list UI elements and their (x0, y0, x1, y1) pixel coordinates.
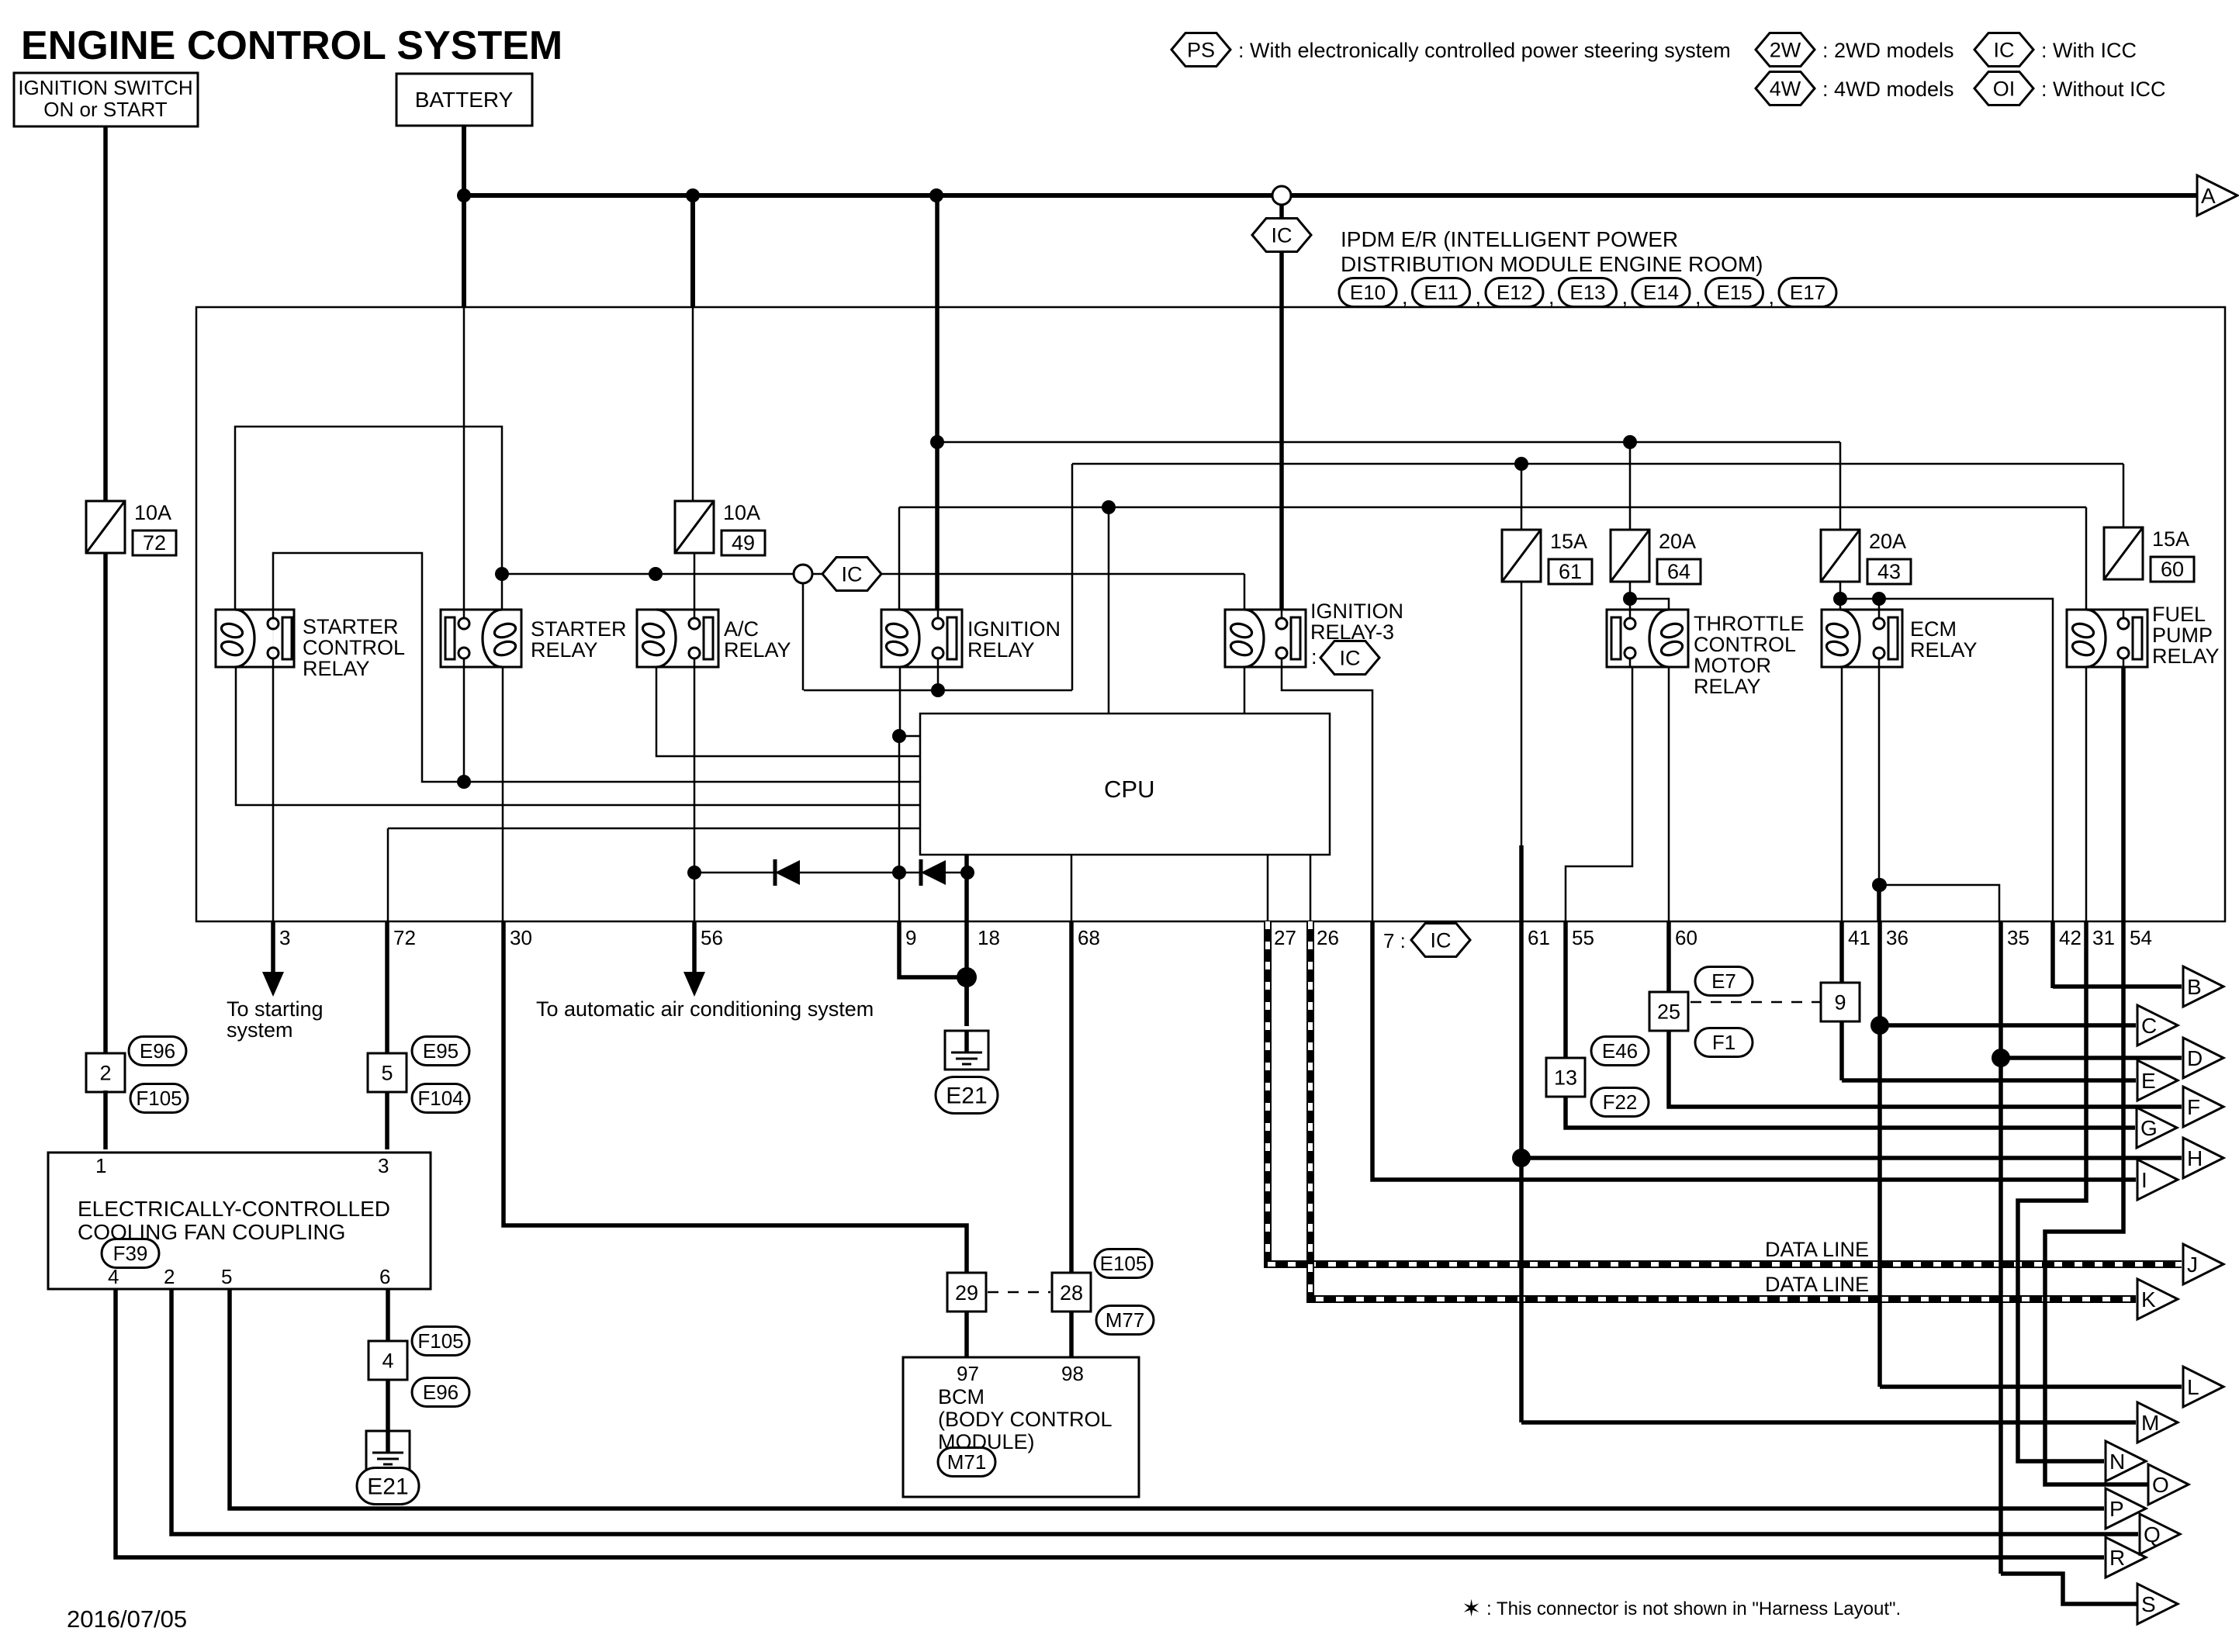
svg-text:FUEL: FUEL (2152, 603, 2206, 626)
svg-text:55: 55 (1572, 926, 1594, 949)
svg-text:97: 97 (957, 1362, 979, 1385)
svg-text:9: 9 (1834, 990, 1846, 1014)
svg-text:31: 31 (2092, 926, 2115, 949)
svg-text:CPU: CPU (1104, 776, 1154, 803)
svg-text:60: 60 (2161, 558, 2184, 581)
svg-text:To automatic air conditioning: To automatic air conditioning system (536, 997, 874, 1021)
svg-text:O: O (2152, 1473, 2169, 1497)
svg-text:J: J (2187, 1253, 2198, 1277)
svg-text:15A: 15A (1550, 530, 1587, 553)
svg-text:RELAY: RELAY (531, 638, 598, 662)
svg-text:54: 54 (2130, 926, 2152, 949)
svg-text:F1: F1 (1712, 1031, 1735, 1054)
svg-text:60: 60 (1675, 926, 1697, 949)
svg-text:2: 2 (99, 1061, 111, 1084)
svg-text:E10: E10 (1350, 281, 1386, 304)
svg-text:E96: E96 (423, 1381, 459, 1404)
svg-text:6: 6 (379, 1265, 390, 1288)
svg-text:27: 27 (1274, 926, 1296, 949)
svg-text:,: , (1476, 285, 1482, 309)
svg-text:28: 28 (1060, 1281, 1083, 1305)
svg-text:,: , (1622, 285, 1628, 309)
svg-text:P: P (2109, 1497, 2124, 1521)
svg-text:,: , (1769, 285, 1775, 309)
svg-text:13: 13 (1554, 1066, 1577, 1089)
svg-text:H: H (2187, 1146, 2203, 1170)
svg-text:G: G (2140, 1116, 2158, 1140)
svg-text:E12: E12 (1497, 281, 1532, 304)
svg-text:E13: E13 (1569, 281, 1605, 304)
svg-text:ENGINE CONTROL SYSTEM: ENGINE CONTROL SYSTEM (21, 23, 562, 68)
svg-text:PS: PS (1187, 38, 1215, 61)
svg-text:RELAY: RELAY (303, 657, 370, 680)
svg-text:DATA LINE: DATA LINE (1765, 1238, 1869, 1261)
svg-text:MOTOR: MOTOR (1694, 654, 1771, 677)
svg-text:5: 5 (381, 1061, 393, 1084)
svg-text:RELAY: RELAY (1694, 675, 1761, 698)
svg-text:E95: E95 (423, 1039, 459, 1063)
svg-text:2: 2 (164, 1265, 175, 1288)
svg-text:IPDM E/R (INTELLIGENT POWER: IPDM E/R (INTELLIGENT POWER (1341, 227, 1678, 251)
svg-text:72: 72 (393, 926, 416, 949)
svg-text:9: 9 (905, 926, 916, 949)
svg-text:A/C: A/C (724, 617, 759, 641)
svg-text:✶: ✶ (1462, 1596, 1481, 1622)
svg-text:E15: E15 (1716, 281, 1752, 304)
svg-text:E21: E21 (946, 1083, 987, 1109)
svg-text:S: S (2141, 1592, 2156, 1616)
svg-text:: 2WD models: : 2WD models (1822, 39, 1954, 62)
svg-text:64: 64 (1667, 560, 1690, 583)
svg-text:61: 61 (1528, 926, 1550, 949)
svg-text:IGNITION SWITCH: IGNITION SWITCH (18, 76, 192, 99)
svg-text:M77: M77 (1106, 1308, 1145, 1332)
svg-text:BCM: BCM (938, 1385, 985, 1408)
svg-text:DISTRIBUTION MODULE ENGINE ROO: DISTRIBUTION MODULE ENGINE ROOM) (1341, 252, 1763, 276)
svg-text:IGNITION: IGNITION (967, 617, 1061, 641)
svg-text:61: 61 (1559, 560, 1582, 583)
svg-text:CONTROL: CONTROL (303, 636, 405, 659)
svg-text:2W: 2W (1770, 38, 1801, 61)
svg-text:7 :: 7 : (1383, 929, 1406, 952)
svg-text:DATA LINE: DATA LINE (1765, 1273, 1869, 1296)
svg-text:5: 5 (221, 1265, 232, 1288)
svg-text:35: 35 (2007, 926, 2030, 949)
svg-text:RELAY: RELAY (1910, 638, 1978, 662)
svg-text:(BODY CONTROL: (BODY CONTROL (938, 1408, 1113, 1431)
svg-text:4W: 4W (1770, 77, 1801, 100)
svg-text:3: 3 (378, 1154, 389, 1177)
svg-text:ECM: ECM (1910, 617, 1957, 641)
svg-text:E7: E7 (1711, 969, 1736, 993)
svg-text:system: system (227, 1018, 293, 1042)
svg-text:,: , (1549, 285, 1555, 309)
svg-text:E96: E96 (140, 1039, 175, 1063)
svg-text:CONTROL: CONTROL (1694, 633, 1796, 656)
svg-text:IC: IC (1272, 223, 1293, 247)
svg-text:ON or START: ON or START (43, 98, 168, 121)
svg-text:F: F (2187, 1095, 2200, 1119)
svg-text:68: 68 (1078, 926, 1100, 949)
svg-text:30: 30 (510, 926, 532, 949)
svg-text:4: 4 (382, 1349, 393, 1372)
svg-text:: With ICC: : With ICC (2041, 39, 2137, 62)
svg-text:STARTER: STARTER (303, 615, 399, 638)
svg-text:10A: 10A (134, 501, 171, 524)
svg-text:F104: F104 (417, 1087, 463, 1110)
svg-text:B: B (2187, 975, 2202, 999)
svg-text:OI: OI (1993, 77, 2016, 100)
svg-text:ELECTRICALLY-CONTROLLED: ELECTRICALLY-CONTROLLED (78, 1197, 390, 1221)
svg-text:26: 26 (1317, 926, 1339, 949)
svg-text:F105: F105 (136, 1087, 182, 1110)
svg-text::: : (1311, 645, 1317, 669)
svg-text:IGNITION: IGNITION (1310, 600, 1403, 623)
svg-text:F39: F39 (113, 1242, 148, 1265)
svg-text:E105: E105 (1100, 1252, 1147, 1275)
svg-text:N: N (2109, 1450, 2125, 1474)
svg-text:29: 29 (955, 1281, 978, 1305)
svg-text:,: , (1402, 285, 1408, 309)
svg-text:PUMP: PUMP (2152, 624, 2213, 647)
svg-text:36: 36 (1886, 926, 1909, 949)
svg-text:R: R (2109, 1546, 2125, 1570)
svg-text:72: 72 (143, 531, 166, 555)
svg-text:L: L (2187, 1375, 2199, 1399)
svg-text:M: M (2141, 1411, 2159, 1435)
svg-text:E46: E46 (1602, 1039, 1638, 1063)
svg-text:E11: E11 (1424, 281, 1458, 304)
svg-text:E14: E14 (1643, 281, 1679, 304)
svg-text:98: 98 (1061, 1362, 1084, 1385)
svg-text:IC: IC (1340, 646, 1361, 669)
svg-text:: With electronically controll: : With electronically controlled power s… (1238, 39, 1731, 62)
svg-text:D: D (2187, 1046, 2203, 1070)
svg-text:56: 56 (701, 926, 723, 949)
svg-text:2016/07/05: 2016/07/05 (67, 1605, 187, 1633)
svg-text:20A: 20A (1869, 530, 1906, 553)
svg-text:49: 49 (732, 531, 755, 555)
svg-text:25: 25 (1657, 1000, 1680, 1023)
svg-text:3: 3 (279, 926, 290, 949)
svg-text:F22: F22 (1603, 1090, 1638, 1114)
svg-text:F105: F105 (417, 1329, 463, 1353)
svg-text:: 4WD models: : 4WD models (1822, 78, 1954, 101)
svg-text:1: 1 (95, 1154, 106, 1177)
svg-text:IC: IC (1994, 38, 2015, 61)
svg-text:IC: IC (842, 562, 863, 586)
svg-text:I: I (2141, 1168, 2147, 1192)
svg-text:E: E (2141, 1069, 2156, 1093)
svg-text:RELAY: RELAY (967, 638, 1035, 662)
svg-text:M71: M71 (947, 1450, 987, 1474)
svg-text:10A: 10A (723, 501, 760, 524)
svg-text:THROTTLE: THROTTLE (1694, 612, 1805, 635)
svg-text:RELAY: RELAY (2152, 645, 2220, 668)
svg-text:K: K (2141, 1287, 2156, 1312)
svg-text:42: 42 (2059, 926, 2082, 949)
svg-text:C: C (2141, 1014, 2157, 1038)
svg-text:STARTER: STARTER (531, 617, 627, 641)
svg-text:A: A (2201, 184, 2216, 208)
svg-text:BATTERY: BATTERY (415, 88, 514, 112)
svg-text:E21: E21 (367, 1474, 408, 1500)
svg-text:To starting: To starting (227, 997, 324, 1021)
svg-text:E17: E17 (1790, 281, 1825, 304)
svg-text:18: 18 (978, 926, 1000, 949)
svg-text:RELAY: RELAY (724, 638, 791, 662)
svg-text:15A: 15A (2152, 527, 2189, 551)
svg-text:Q: Q (2144, 1522, 2161, 1547)
svg-text:,: , (1695, 285, 1701, 309)
svg-text:41: 41 (1848, 926, 1870, 949)
svg-text:4: 4 (108, 1265, 119, 1288)
svg-text:20A: 20A (1659, 530, 1696, 553)
svg-text:43: 43 (1877, 560, 1901, 583)
svg-text:: Without ICC: : Without ICC (2041, 78, 2166, 101)
svg-text:: This connector is not shown: : This connector is not shown in "Harnes… (1486, 1598, 1901, 1619)
svg-text:IC: IC (1431, 928, 1452, 952)
